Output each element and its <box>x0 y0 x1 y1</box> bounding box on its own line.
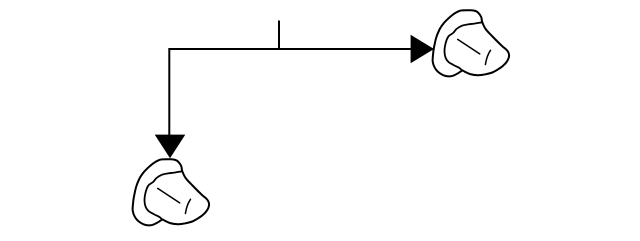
clip part, top right <box>433 10 509 76</box>
wire: vertical tick at top <box>278 21 280 50</box>
wire: horizontal line <box>169 48 410 50</box>
clip part, bottom left <box>133 159 209 225</box>
arrowhead pointing right <box>411 35 434 63</box>
arrowhead pointing down <box>155 135 186 159</box>
wire: vertical line down-left <box>168 48 170 135</box>
